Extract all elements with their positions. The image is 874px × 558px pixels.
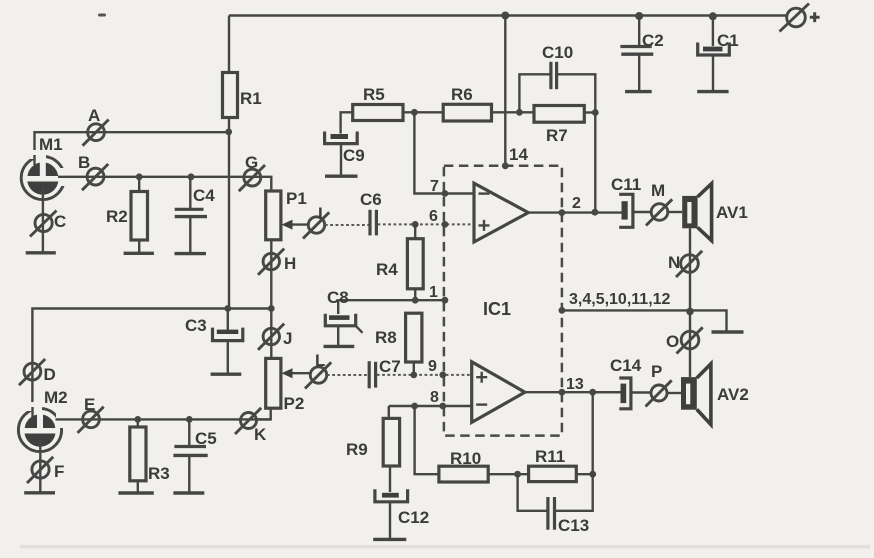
capacitor C4 [175, 177, 216, 253]
wire R11 node up to pin13 [592, 392, 594, 474]
resistor R10 [439, 449, 488, 482]
wire R5 to R6 [403, 111, 443, 113]
wire 3,4,5 ground line [562, 310, 727, 330]
node junction A-wire R1 [225, 129, 232, 136]
capacitor C6 [360, 190, 382, 235]
node junction top rail C1 [709, 12, 717, 20]
svg-text:C13: C13 [558, 516, 589, 535]
wire top V+ rail [229, 14, 786, 16]
node junction top rail C2 [635, 12, 643, 20]
svg-text:C14: C14 [610, 356, 642, 375]
node junction E C5 [186, 416, 193, 423]
resistor R3 [130, 419, 170, 492]
node pin 2 [559, 209, 566, 216]
wire R7 node down to pin2 line [594, 113, 596, 213]
svg-text:A: A [88, 106, 100, 125]
capacitor C12 [373, 466, 429, 539]
ground M1 [26, 251, 56, 254]
svg-text:R5: R5 [363, 85, 385, 104]
wire pin9 line (dotted) [377, 374, 472, 376]
svg-text:H: H [284, 254, 296, 273]
speaker AV2 [667, 364, 749, 425]
svg-text:R2: R2 [106, 207, 128, 226]
microphone M1 [21, 135, 69, 200]
potentiometer P1 [266, 189, 309, 240]
node junction pin2 R7 [592, 209, 599, 216]
node junction R11 right [589, 471, 596, 478]
op-amp U1b [472, 362, 525, 423]
svg-text:14: 14 [509, 145, 528, 164]
node pin 1 [442, 297, 449, 304]
svg-text:1: 1 [429, 284, 438, 301]
op-amp U1a [474, 183, 528, 242]
node junction R8 bottom [410, 372, 417, 379]
wire AV1 to AV2 vertical [689, 228, 691, 377]
node junction R5 R6 pin7 [411, 109, 418, 116]
ground 3,4,5 tap [712, 330, 744, 333]
wire pin14 vertical [504, 16, 506, 166]
node junction R10 R11 C13 [514, 471, 521, 478]
svg-text:9: 9 [428, 358, 437, 375]
node pin 14 [502, 162, 509, 169]
svg-text:O: O [666, 332, 679, 351]
svg-text:G: G [245, 153, 258, 172]
node pin 7 [442, 190, 449, 197]
wire pin2 output line [528, 211, 621, 213]
node junction C10 left [516, 109, 523, 116]
wire M2 bottom to ground [39, 440, 41, 492]
capacitor C3 [185, 309, 243, 375]
wire pin13 output line [525, 391, 621, 393]
svg-text:C8: C8 [327, 288, 349, 307]
resistor R7 [534, 106, 584, 146]
svg-text:AV1: AV1 [716, 203, 748, 222]
svg-text:C: C [54, 212, 66, 231]
svg-text:C3: C3 [185, 316, 207, 335]
wire pin8 line [389, 405, 472, 407]
speaker AV1 [668, 184, 748, 241]
node junction R4 R8 [412, 297, 419, 304]
test point O [666, 327, 703, 353]
wire P2 bottom to K [256, 408, 271, 419]
test point H [258, 249, 296, 275]
resistor R6 [443, 85, 491, 121]
resistor R1 [223, 73, 262, 118]
test point J [258, 324, 292, 350]
svg-text:3,4,5,10,11,12: 3,4,5,10,11,12 [569, 291, 671, 308]
capacitor C14 [593, 356, 651, 409]
svg-text:C9: C9 [343, 146, 365, 165]
svg-text:R11: R11 [535, 447, 565, 466]
wire node line y308 [32, 309, 271, 411]
svg-text:IC1: IC1 [483, 299, 511, 319]
wire node A to M1 top [35, 132, 229, 158]
wire I to C6 (dotted) [325, 224, 369, 226]
wire P1 wiper column [270, 240, 272, 359]
svg-text:8: 8 [430, 389, 439, 406]
svg-text:I: I [318, 204, 323, 223]
ground M2 [24, 491, 55, 494]
test point N [668, 251, 702, 277]
capacitor C10 [519, 43, 595, 113]
wire R5 left to C9 [341, 112, 353, 133]
node junction speakers line [686, 308, 694, 316]
node junction E R3 [134, 416, 141, 423]
wire P2 arrow handled above; wire L to C7 (dotted) [327, 374, 368, 376]
test point L [305, 351, 331, 389]
test point M [646, 181, 672, 226]
svg-text:F: F [54, 462, 64, 481]
microphone M2 [18, 388, 67, 452]
svg-text:C5: C5 [195, 429, 217, 448]
svg-text:C12: C12 [398, 508, 429, 527]
wire pin1 line [338, 299, 445, 301]
svg-text:L: L [315, 351, 325, 370]
svg-text:AV2: AV2 [717, 385, 749, 404]
wire M1 bottom to ground [42, 188, 44, 252]
capacitor C9 [325, 132, 365, 177]
node pin 6 [442, 221, 449, 228]
node junction top rail pin14 [501, 12, 509, 20]
node junction C3 [224, 305, 231, 312]
svg-text:K: K [254, 425, 267, 444]
test point G [239, 153, 265, 191]
svg-text:P2: P2 [284, 394, 305, 413]
svg-text:J: J [283, 329, 292, 348]
svg-text:C6: C6 [360, 190, 382, 209]
node pin 13 [559, 389, 566, 396]
node junction H/J column [268, 305, 275, 312]
wire pin7 from R5R6 node [414, 112, 474, 193]
resistor R11 [529, 447, 577, 482]
test point C [30, 211, 66, 237]
node junction B C4 [188, 173, 195, 180]
wire R1 top lead [228, 16, 230, 73]
svg-text:B: B [78, 153, 90, 172]
svg-text:N: N [668, 253, 680, 272]
svg-text:E: E [84, 395, 95, 414]
wire pin6 line (dotted) [378, 223, 474, 225]
svg-text:R6: R6 [451, 85, 473, 104]
svg-text:M1: M1 [39, 135, 63, 154]
svg-text:P1: P1 [286, 189, 307, 208]
node junction pin13 R11 [589, 389, 596, 396]
test point F [27, 457, 64, 483]
wire R11 right [576, 473, 592, 475]
wire R10 to R11 [488, 473, 528, 475]
node junction B R2 [136, 173, 143, 180]
ground C4 [175, 252, 207, 255]
wire R6 to R7 [492, 111, 535, 113]
svg-text:R10: R10 [450, 449, 481, 468]
test point A [83, 106, 109, 146]
svg-text:R3: R3 [148, 464, 170, 483]
svg-text:2: 2 [572, 195, 581, 212]
wire pin8 node down to R10 [415, 406, 439, 474]
svg-text:C7: C7 [379, 357, 401, 376]
svg-text:7: 7 [430, 178, 439, 195]
capacitor C8 [324, 288, 363, 346]
resistor R8 [375, 313, 422, 375]
svg-text:C4: C4 [193, 186, 215, 205]
ground R3 [118, 491, 153, 494]
svg-text:C2: C2 [642, 31, 664, 50]
capacitor C1 [697, 16, 739, 92]
resistor R5 [353, 85, 403, 121]
node junction R4 top [412, 221, 419, 228]
wire E line M2 to P2 [56, 418, 271, 420]
terminal + supply [780, 4, 820, 32]
ground R2 [124, 252, 154, 255]
svg-text:R7: R7 [546, 126, 568, 145]
node on dashed edge [559, 307, 566, 314]
capacitor C11 [611, 175, 651, 227]
svg-text:R8: R8 [375, 328, 397, 347]
node junction pin8 R10 [411, 403, 418, 410]
svg-text:D: D [44, 365, 56, 384]
svg-text:M2: M2 [44, 388, 68, 407]
wire R1 bottom to node line [228, 118, 230, 309]
IC1 dashed box [444, 166, 562, 436]
capacitor C7 [369, 357, 401, 388]
test point K [235, 408, 267, 444]
svg-text:P: P [651, 362, 662, 381]
wire pin8 left down to R9 [388, 406, 390, 418]
node junction R7 right [592, 109, 599, 116]
svg-text:R1: R1 [240, 89, 262, 108]
svg-text:C10: C10 [542, 43, 573, 62]
capacitor C5 [173, 419, 216, 493]
test point D [19, 359, 56, 385]
test point E [78, 395, 104, 433]
svg-text:R4: R4 [376, 260, 398, 279]
test point I [303, 204, 329, 239]
svg-text:13: 13 [566, 376, 584, 393]
resistor R9 [346, 418, 400, 466]
svg-text:M: M [651, 181, 665, 200]
wire R7 right [584, 111, 595, 113]
svg-text:R9: R9 [346, 440, 368, 459]
potentiometer P2 [266, 358, 311, 413]
svg-text:C11: C11 [611, 175, 641, 194]
capacitor C13 loop [518, 474, 593, 535]
node pin 8 [439, 403, 446, 410]
svg-text:6: 6 [429, 208, 438, 225]
svg-text:C1: C1 [717, 31, 739, 50]
test point B [78, 153, 108, 190]
resistor R2 [106, 177, 148, 253]
resistor R4 [376, 224, 423, 300]
test point P [646, 362, 672, 407]
node pin 9 [439, 372, 446, 379]
capacitor C2 [620, 16, 663, 92]
wire B line M1 to P1 [58, 177, 271, 191]
